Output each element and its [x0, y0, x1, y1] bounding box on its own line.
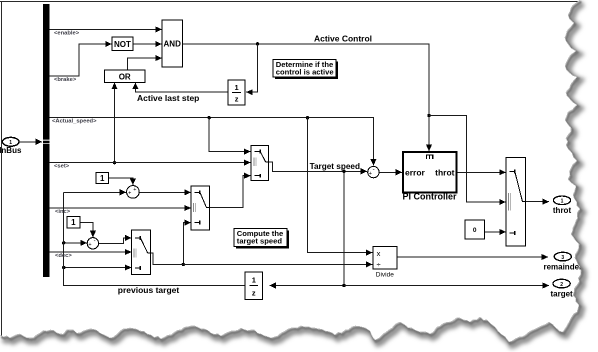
svg-text:<Actual_speed>: <Actual_speed>: [52, 119, 97, 125]
svg-text:Active Control: Active Control: [314, 34, 372, 44]
wire set branch up to OR input 1: [111, 83, 117, 165]
logic AND block: [162, 20, 183, 67]
wire inc to increment switch input 2: [49, 205, 191, 211]
svg-text:3: 3: [561, 255, 564, 261]
svg-text:Divide: Divide: [376, 272, 394, 279]
svg-text:target speed: target speed: [237, 236, 283, 245]
wire Constant 0 to output switch input 3: [485, 229, 506, 235]
wire OR output to AND input 3: [127, 55, 162, 70]
wire Active last step: unit delay output to OR input 2: [132, 83, 228, 93]
switch (output select): [506, 158, 526, 247]
annotation determine if the control is active: [273, 60, 338, 80]
wire enable to AND input 1: [49, 26, 161, 32]
wire brake to NOT input: [49, 41, 111, 76]
wire previous target feedback: [64, 192, 246, 285]
wire Actual_speed branch to speed switch input 1: [209, 118, 250, 155]
label Active Control: [314, 34, 372, 44]
bus label brake: [54, 77, 77, 83]
svg-text:<inc>: <inc>: [55, 209, 71, 215]
wire Active Control branch to output switch control input: [429, 116, 506, 206]
wire Constant 1 to decrement sum: [80, 222, 96, 237]
svg-text:InBus: InBus: [0, 146, 22, 155]
wire increment sum to increment switch input 1: [139, 189, 191, 195]
label previous target: [118, 285, 180, 295]
wire output switch to throt outport: [526, 199, 550, 205]
svg-text:1: 1: [235, 83, 239, 92]
logic OR block: [105, 70, 146, 83]
error sum: [368, 166, 379, 177]
svg-text:AND: AND: [164, 40, 182, 49]
wire target branch to target outport: [344, 282, 549, 288]
bus label set: [54, 164, 70, 170]
wire error to PI Controller: [379, 169, 402, 175]
wire feedback to increment sum: [64, 189, 126, 195]
svg-text:z: z: [252, 288, 256, 297]
svg-text:<dec>: <dec>: [55, 253, 72, 259]
svg-text:1: 1: [100, 174, 105, 183]
wire target branch down: [343, 171, 345, 285]
wire NOT output to AND input 2: [133, 41, 162, 47]
sum (increment): [127, 186, 140, 199]
svg-text:2: 2: [560, 282, 563, 288]
svg-text:OR: OR: [119, 73, 131, 82]
bus label enable: [54, 30, 80, 36]
unit delay (Active last step): [228, 80, 245, 105]
wire dec to decrement switch input 2: [49, 249, 131, 255]
logic NOT block: [112, 37, 133, 50]
svg-text:<brake>: <brake>: [54, 77, 77, 83]
svg-text:0: 0: [473, 227, 477, 234]
label PI Controller: [402, 192, 457, 202]
window left border: [1, 2, 3, 337]
svg-text:+: +: [128, 191, 131, 197]
wire feedback to decrement switch input 3: [62, 264, 131, 270]
constant 1 (increment): [96, 173, 109, 184]
label Target speed: [310, 162, 360, 171]
svg-text:-: -: [94, 238, 96, 244]
sum (decrement): [87, 238, 98, 249]
wire feedback to decrement sum: [62, 240, 87, 246]
svg-text:throt: throt: [553, 206, 572, 215]
wire decrement switch output to Divide input 2: [151, 253, 373, 268]
inport InBus: [0, 137, 42, 155]
svg-text:error: error: [405, 167, 426, 177]
svg-text:+: +: [369, 171, 372, 177]
wire Actual_speed branch to Divide input 1: [308, 118, 373, 256]
svg-text:control is active: control is active: [276, 67, 334, 76]
svg-text:PI Controller: PI Controller: [402, 192, 457, 202]
wire Constant 1 to increment sum: [109, 178, 137, 185]
svg-text:<set>: <set>: [54, 164, 70, 170]
wire Target speed: speed switch output to error sum: [269, 162, 368, 175]
svg-text:previous target: previous target: [118, 285, 180, 295]
svg-text:÷: ÷: [376, 260, 380, 269]
annotation compute the target speed: [234, 229, 289, 249]
label Active last step: [137, 93, 199, 103]
wire target branch to unit delay: [269, 282, 345, 288]
svg-text:remainder: remainder: [543, 263, 582, 272]
svg-text:1: 1: [71, 218, 76, 227]
svg-text:1: 1: [561, 199, 564, 205]
label Divide: [376, 272, 394, 279]
outport remainder: [543, 252, 582, 271]
svg-text:NOT: NOT: [114, 40, 131, 49]
svg-text:z: z: [235, 95, 239, 104]
wire increment switch output to speed switch input 3: [210, 173, 251, 208]
bus label Actual_speed: [52, 119, 97, 125]
Divide block: [373, 247, 397, 269]
constant 1 (decrement): [67, 216, 80, 228]
switch (decrement select): [131, 230, 150, 274]
wire Divide output to remainder outport: [397, 254, 548, 260]
switch (speed select): [251, 146, 268, 181]
svg-text:target: target: [550, 290, 573, 299]
svg-text:throt: throt: [435, 167, 455, 177]
svg-text:-: -: [373, 167, 375, 173]
wire decrement switch branch to increment switch input 3: [182, 220, 191, 267]
switch (increment select): [191, 186, 210, 230]
svg-text:x: x: [377, 249, 381, 258]
outport target: [550, 279, 573, 298]
svg-text:Target speed: Target speed: [310, 162, 360, 171]
wire Active Control branch to unit delay input: [246, 44, 257, 95]
svg-text:<enable>: <enable>: [54, 30, 80, 36]
window top border: [0, 1, 579, 3]
svg-text:+: +: [88, 242, 91, 248]
PI Controller block: [403, 152, 457, 193]
bus selector bar: [43, 4, 50, 277]
bus label inc: [55, 209, 71, 215]
wire throt to output switch input 1: [456, 169, 505, 175]
svg-text:1: 1: [9, 140, 12, 146]
bus label dec: [55, 253, 72, 259]
svg-text:Active last step: Active last step: [137, 93, 199, 103]
wire decrement sum to decrement switch input 1: [98, 235, 131, 244]
outport throt: [553, 196, 572, 215]
unit delay (previous target): [245, 272, 262, 299]
wire Actual_speed to error sum: [49, 116, 376, 166]
wire Active Control: AND output down to PI trigger: [183, 42, 433, 151]
svg-text:+: +: [133, 187, 136, 193]
svg-text:1: 1: [252, 276, 256, 285]
wire set to speed switch input 2: [49, 160, 250, 166]
constant 0: [465, 220, 485, 239]
